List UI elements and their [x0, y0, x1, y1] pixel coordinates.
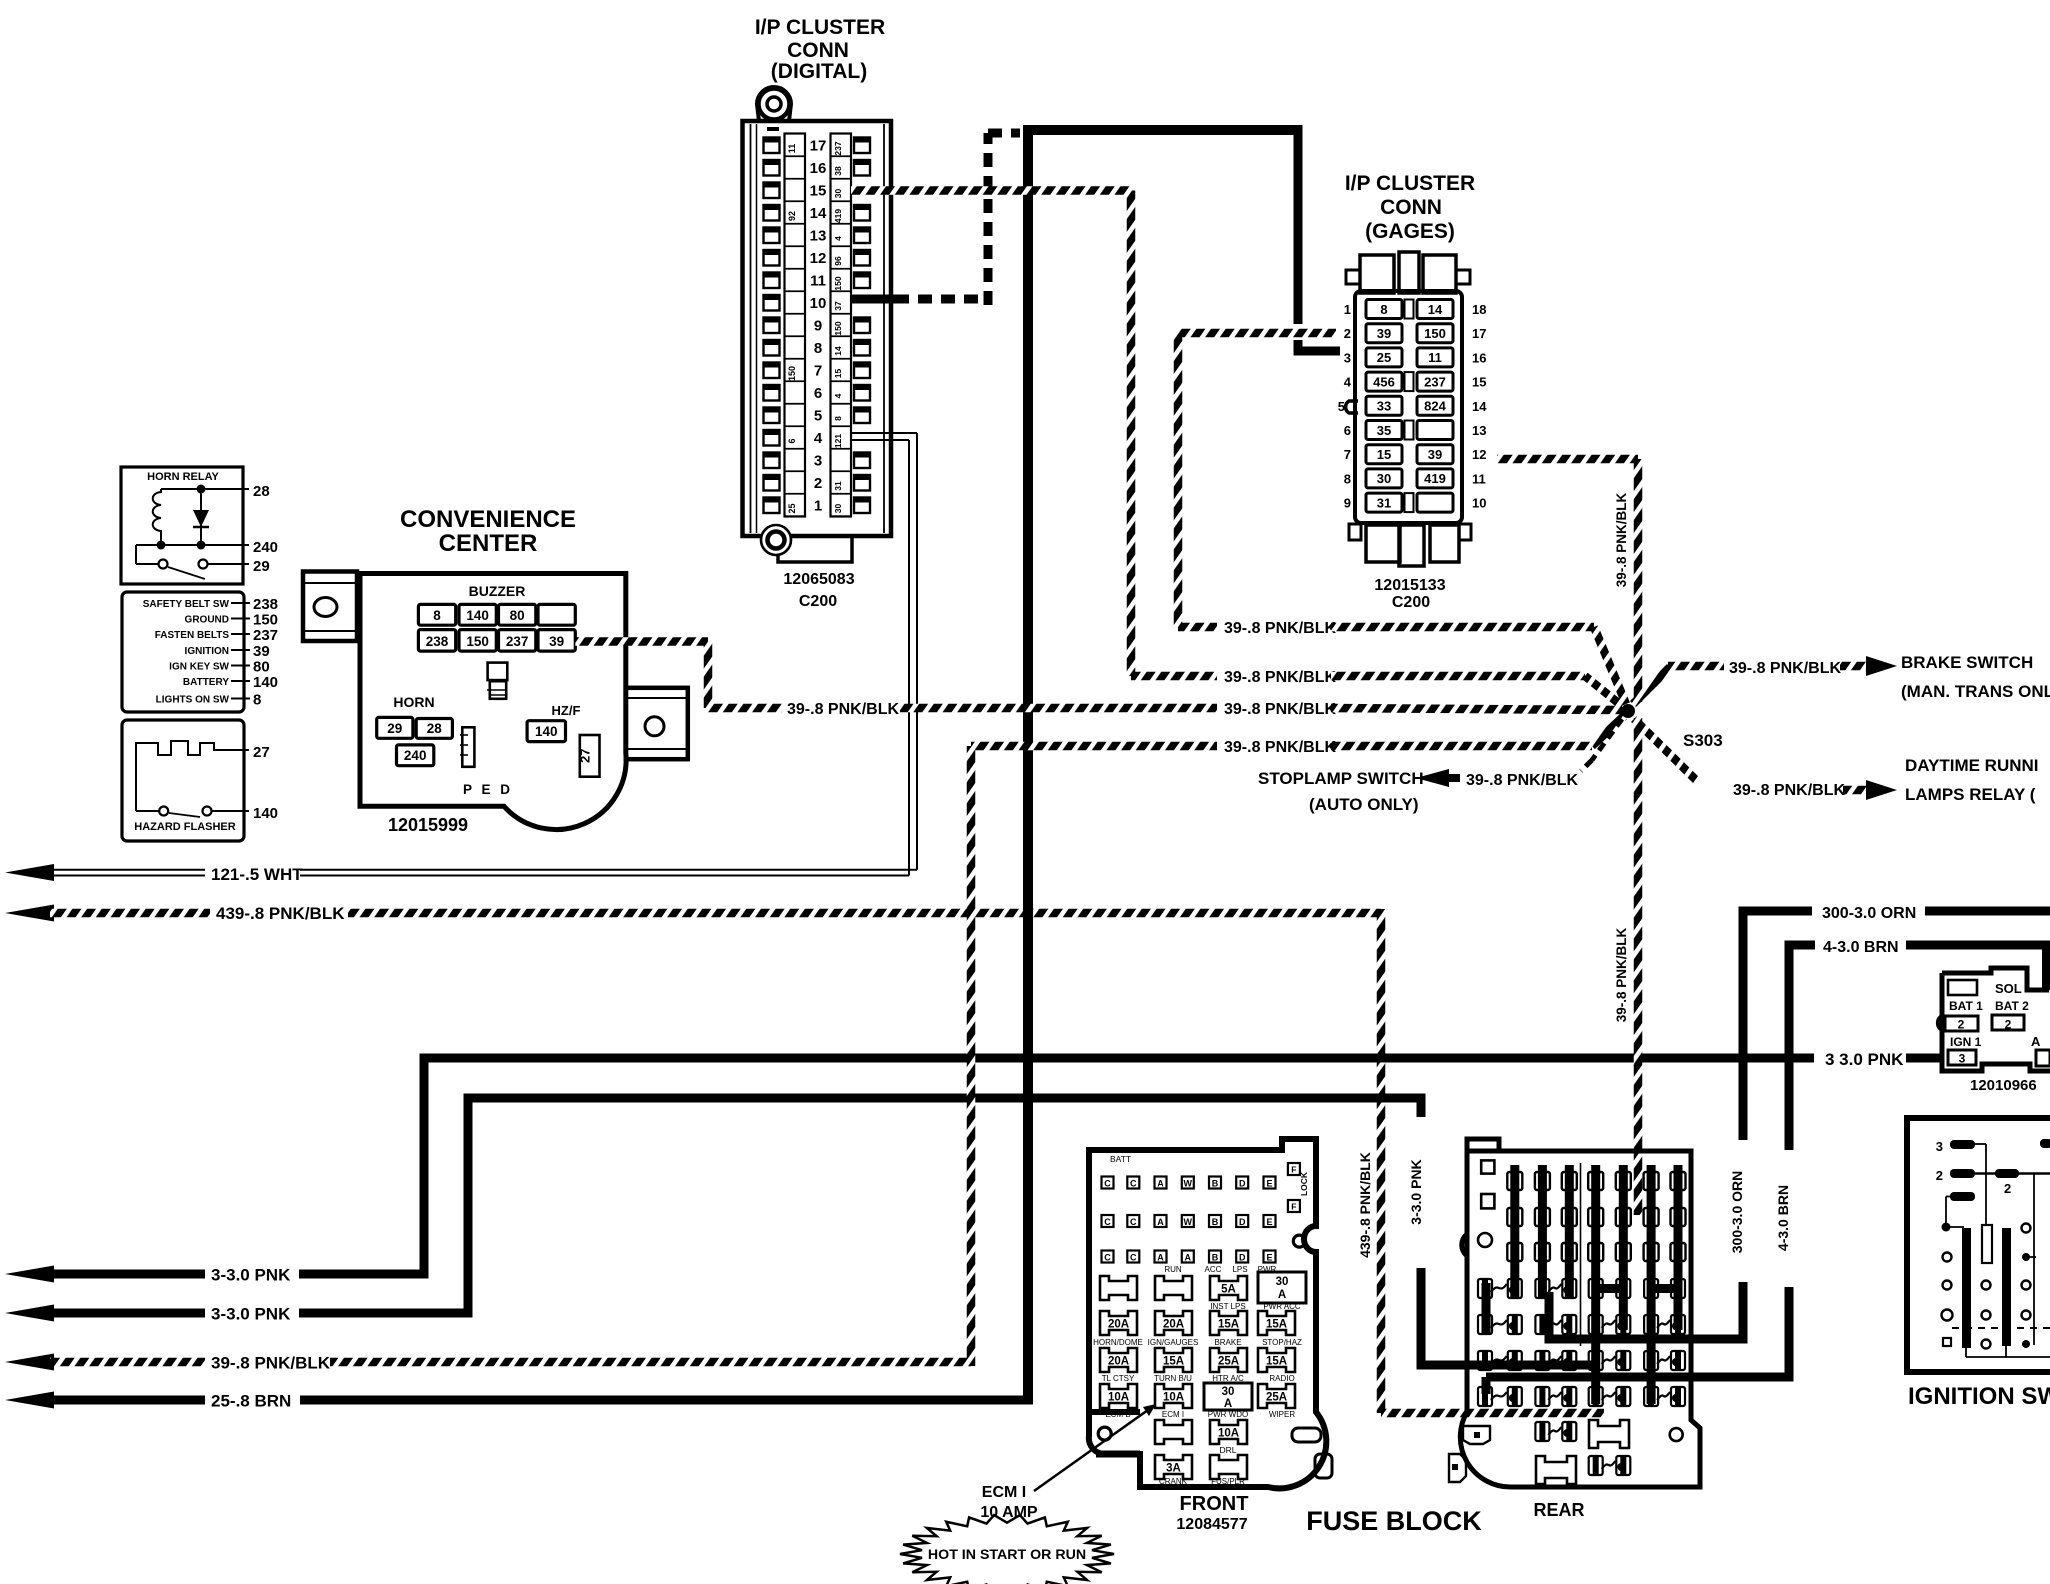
svg-text:237: 237	[506, 634, 529, 649]
svg-text:SAFETY BELT SW: SAFETY BELT SW	[143, 599, 230, 610]
wire 121-.5 WHT to left harness	[5, 433, 917, 884]
svg-text:240: 240	[253, 539, 278, 556]
svg-text:BRAKE SWITCH: BRAKE SWITCH	[1901, 653, 2033, 672]
svg-text:IGNITION: IGNITION	[185, 646, 229, 657]
svg-text:419: 419	[1424, 471, 1446, 486]
convenience center middle connector	[487, 663, 507, 699]
svg-text:17: 17	[1472, 326, 1486, 341]
svg-text:RADIO: RADIO	[1269, 1374, 1294, 1383]
svg-text:12010966: 12010966	[1970, 1077, 2037, 1094]
svg-text:4: 4	[814, 430, 823, 447]
svg-text:824: 824	[1424, 399, 1446, 414]
connector U1 left contact squares pins 17-1	[764, 127, 780, 513]
svg-text:A: A	[1278, 1289, 1286, 1301]
svg-text:W: W	[1184, 1178, 1193, 1188]
front fuse block outline 12084577	[1089, 1139, 1326, 1488]
wire 25-.8 BRN top run to gages pin 3	[1023, 125, 1340, 351]
front fuse row 6: 3A CRANK / FUS-PLR	[1155, 1455, 1247, 1486]
svg-text:27: 27	[578, 749, 593, 763]
svg-text:11: 11	[1472, 471, 1486, 486]
svg-text:I/P CLUSTER: I/P CLUSTER	[755, 16, 885, 39]
relay K1 switch contacts and wire 29	[136, 545, 270, 579]
wire 39-.8 PNK/BLK splice row 4 (from left harness riser)	[971, 716, 1624, 756]
wire 39 PNK/BLK from gages pin 12	[1497, 459, 1638, 702]
svg-text:C: C	[1130, 1217, 1137, 1227]
svg-text:P E D: P E D	[463, 782, 513, 797]
svg-text:92: 92	[787, 211, 797, 221]
svg-text:8: 8	[253, 692, 261, 709]
svg-text:17: 17	[810, 138, 827, 155]
wire 39-.8 PNK/BLK S303 drop to rear fuse block	[1614, 718, 1638, 1215]
svg-text:A: A	[1185, 1252, 1192, 1262]
svg-text:TURN B/U: TURN B/U	[1154, 1374, 1192, 1383]
svg-text:FRONT: FRONT	[1180, 1493, 1249, 1515]
wire 25-.8 BRN to left harness	[5, 1392, 1028, 1411]
connector U1 right circuit-number column	[831, 134, 852, 517]
svg-text:39-.8 PNK/BLK: 39-.8 PNK/BLK	[1733, 782, 1845, 799]
svg-text:121-.5 WHT: 121-.5 WHT	[211, 865, 303, 884]
svg-text:CONVENIENCE: CONVENIENCE	[400, 506, 576, 533]
ignition switch pin 3	[1936, 1139, 1986, 1224]
svg-text:(GAGES): (GAGES)	[1365, 220, 1455, 243]
rear fuse block lower-left pad	[1449, 1454, 1466, 1482]
svg-text:BATT: BATT	[1110, 1154, 1131, 1164]
svg-text:8: 8	[833, 416, 843, 421]
svg-text:3-3.0 PNK: 3-3.0 PNK	[1408, 1159, 1424, 1224]
svg-text:15: 15	[833, 369, 843, 379]
svg-text:15A: 15A	[1266, 1356, 1287, 1368]
svg-text:12: 12	[1472, 447, 1486, 462]
svg-text:STOP/HAZ: STOP/HAZ	[1262, 1338, 1302, 1347]
svg-text:W: W	[1184, 1217, 1193, 1227]
svg-text:33: 33	[1377, 399, 1391, 414]
svg-text:39-.8 PNK/BLK: 39-.8 PNK/BLK	[787, 701, 899, 718]
svg-text:7: 7	[814, 363, 822, 380]
svg-text:2: 2	[2005, 1018, 2012, 1032]
wire 28 horn relay	[161, 483, 270, 500]
svg-text:13: 13	[810, 228, 827, 245]
convenience center right mounting tab	[626, 688, 688, 759]
svg-text:LPS: LPS	[1232, 1265, 1247, 1274]
connector U1 bottom screw and tab	[761, 525, 852, 562]
svg-text:96: 96	[833, 256, 843, 266]
svg-text:419: 419	[833, 209, 843, 223]
svg-text:11: 11	[787, 144, 797, 154]
svg-text:80: 80	[510, 608, 525, 623]
wire 25-.8 BRN long riser	[1023, 130, 1033, 1405]
svg-text:2: 2	[2004, 1181, 2011, 1196]
svg-text:30: 30	[1377, 471, 1391, 486]
svg-text:12015999: 12015999	[388, 815, 468, 835]
svg-text:150: 150	[466, 634, 489, 649]
svg-text:8: 8	[1380, 302, 1387, 317]
svg-text:238: 238	[253, 596, 278, 613]
svg-text:39-.8 PNK/BLK: 39-.8 PNK/BLK	[1614, 927, 1629, 1022]
svg-text:15A: 15A	[1266, 1319, 1287, 1331]
svg-text:6: 6	[814, 385, 822, 402]
wire 300-3.0 ORN feed	[1549, 905, 2050, 1344]
svg-text:BRAKE: BRAKE	[1214, 1338, 1241, 1347]
convenience center small connector	[460, 727, 474, 767]
front fuse block accessory pads	[1292, 1428, 1332, 1478]
wire 39-.8 PNK/BLK branch to stoplamp switch	[1258, 719, 1622, 814]
svg-text:15: 15	[1472, 375, 1486, 390]
wire 3-3.0 PNK (upper) to left harness	[5, 1050, 1941, 1285]
front fuse row 3: 20A 15A 25A 15A	[1100, 1348, 1295, 1372]
svg-text:C: C	[1130, 1252, 1137, 1262]
svg-text:140: 140	[253, 674, 278, 691]
rear fuse block clip rows 2-4	[1478, 1315, 1685, 1406]
svg-text:8: 8	[1344, 471, 1351, 486]
svg-text:150: 150	[1424, 326, 1446, 341]
svg-text:5: 5	[814, 408, 822, 425]
front fuse block F terminals	[1288, 1163, 1300, 1212]
svg-text:6: 6	[1344, 423, 1351, 438]
buzzer cavity row 1: 8 140 80 blank	[418, 604, 575, 625]
svg-text:E: E	[1266, 1178, 1272, 1188]
svg-text:B: B	[1212, 1178, 1219, 1188]
svg-text:25A: 25A	[1266, 1392, 1287, 1404]
svg-text:REAR: REAR	[1533, 1500, 1584, 1520]
flasher element and wire 27	[136, 741, 270, 770]
svg-text:B: B	[1212, 1217, 1219, 1227]
svg-text:I/P CLUSTER: I/P CLUSTER	[1345, 172, 1475, 195]
wire 39 PNK/BLK from digital pin 15	[851, 191, 1131, 677]
svg-text:D: D	[1239, 1178, 1246, 1188]
wire 39-.8 PNK/BLK branch to daytime running lamps relay	[1634, 719, 2039, 804]
svg-text:ACC: ACC	[1205, 1265, 1222, 1274]
svg-text:2: 2	[814, 475, 822, 492]
svg-text:S303: S303	[1683, 731, 1723, 750]
svg-text:HORN/DOME: HORN/DOME	[1093, 1338, 1143, 1347]
svg-text:GROUND: GROUND	[185, 615, 229, 626]
svg-text:30: 30	[1276, 1276, 1289, 1288]
svg-text:8: 8	[433, 608, 441, 623]
svg-text:(MAN. TRANS ONLY: (MAN. TRANS ONLY	[1901, 682, 2050, 701]
front fuse row 5: blank / 10A DRL	[1155, 1420, 1247, 1455]
svg-text:STOPLAMP SWITCH: STOPLAMP SWITCH	[1258, 769, 1424, 788]
svg-text:237: 237	[253, 627, 278, 644]
svg-text:IGNITION SW: IGNITION SW	[1908, 1383, 2050, 1410]
svg-text:31: 31	[1377, 495, 1391, 510]
front fuse block bus labels RUN ACC LPS PWR	[1164, 1265, 1276, 1274]
rear fuse block fusible link columns	[1507, 1165, 1685, 1404]
svg-text:3-3.0 PNK: 3-3.0 PNK	[211, 1305, 291, 1324]
svg-text:A: A	[1157, 1178, 1164, 1188]
svg-text:B: B	[1212, 1252, 1219, 1262]
svg-text:31: 31	[833, 481, 843, 491]
callout ECM I 10 AMP	[980, 1404, 1156, 1521]
svg-text:PWR ACC: PWR ACC	[1263, 1302, 1301, 1311]
svg-text:300-3.0 ORN: 300-3.0 ORN	[1729, 1171, 1745, 1253]
instrument switch feed box	[122, 592, 244, 712]
svg-text:39-.8 PNK/BLK: 39-.8 PNK/BLK	[1466, 772, 1578, 789]
relay K1 HORN RELAY box	[121, 467, 243, 584]
svg-text:150: 150	[833, 321, 843, 335]
connector U1 I/P CLUSTER CONN (DIGITAL) title	[755, 16, 885, 83]
svg-text:C: C	[1130, 1178, 1137, 1188]
svg-text:BATTERY: BATTERY	[183, 677, 229, 688]
svg-text:10A: 10A	[1163, 1392, 1184, 1404]
svg-text:C: C	[1104, 1217, 1111, 1227]
rear fuse block left riser	[1482, 1283, 1491, 1333]
svg-text:9: 9	[814, 318, 822, 335]
svg-text:39: 39	[1428, 447, 1442, 462]
convenience center 12015999 body outline	[357, 574, 626, 830]
HZ/F cavity 140	[527, 721, 565, 742]
svg-text:ECM B: ECM B	[1105, 1410, 1130, 1419]
svg-text:WIPER: WIPER	[1269, 1410, 1295, 1419]
svg-text:150: 150	[833, 276, 843, 290]
svg-text:150: 150	[253, 612, 278, 629]
svg-text:(AUTO ONLY): (AUTO ONLY)	[1309, 795, 1419, 814]
connector U1 pin numbers 1-17	[810, 138, 827, 515]
wire 439-.8 PNK/BLK vertical drop to fuse block	[1357, 909, 1604, 1413]
svg-text:A: A	[2031, 1034, 2041, 1049]
svg-text:IGN 1: IGN 1	[1950, 1035, 1982, 1049]
svg-text:C200: C200	[799, 593, 837, 610]
svg-text:3: 3	[814, 453, 822, 470]
connector U1 body C200 12065083	[743, 87, 892, 536]
svg-text:10A: 10A	[1108, 1392, 1129, 1404]
svg-text:140: 140	[535, 724, 558, 739]
svg-text:DAYTIME RUNNI: DAYTIME RUNNI	[1905, 756, 2039, 775]
svg-text:300-3.0 ORN: 300-3.0 ORN	[1822, 905, 1916, 922]
node GROUND wire 150	[185, 612, 278, 629]
svg-text:10: 10	[810, 295, 827, 312]
wire 39-.8 PNK/BLK riser to splice row	[967, 746, 976, 1366]
svg-text:HOT IN START OR RUN: HOT IN START OR RUN	[928, 1547, 1086, 1563]
node BATTERY wire 140	[183, 674, 278, 691]
svg-text:2: 2	[1958, 1018, 1965, 1032]
svg-text:14: 14	[1428, 302, 1443, 317]
rear fuse block clip row 1	[1478, 1279, 1685, 1298]
svg-text:30: 30	[1222, 1386, 1235, 1398]
svg-text:ECM I: ECM I	[982, 1484, 1026, 1501]
front fuse row2 sublabels	[1093, 1338, 1302, 1347]
svg-text:CONN: CONN	[1380, 196, 1442, 219]
front fuse block terminal letter grid	[1102, 1177, 1276, 1263]
svg-text:14: 14	[810, 205, 827, 222]
svg-text:28: 28	[253, 483, 270, 500]
svg-text:12015133: 12015133	[1374, 577, 1445, 594]
wire 439-.8 PNK/BLK to left harness	[5, 904, 1381, 923]
connector U2 terminal boxes and circuit numbers	[1366, 300, 1453, 513]
node IGN KEY SW wire 80	[169, 659, 270, 676]
svg-text:7: 7	[1344, 447, 1351, 462]
svg-text:12065083: 12065083	[783, 571, 854, 588]
svg-text:11: 11	[810, 273, 826, 290]
svg-text:INST LPS: INST LPS	[1210, 1302, 1245, 1311]
svg-text:3: 3	[1936, 1139, 1943, 1154]
svg-text:14: 14	[1472, 399, 1487, 414]
horn cavity 29	[377, 717, 413, 738]
svg-text:15A: 15A	[1163, 1356, 1184, 1368]
ignition switch third terminal	[1942, 1192, 1976, 1232]
svg-text:A: A	[1157, 1217, 1164, 1227]
svg-text:28: 28	[427, 721, 443, 736]
wire 39-.8 PNK/BLK splice row 3 (from convenience center buzzer 39)	[575, 642, 1622, 719]
connector SOL 12010966 body	[1938, 968, 2050, 1071]
front fuse row 2: 20A 20A 15A 15A	[1100, 1311, 1295, 1335]
svg-text:A: A	[1224, 1398, 1232, 1410]
svg-text:15: 15	[810, 183, 827, 200]
svg-text:16: 16	[1472, 350, 1486, 365]
svg-text:439-.8 PNK/BLK: 439-.8 PNK/BLK	[1357, 1152, 1373, 1258]
svg-text:237: 237	[833, 141, 843, 155]
svg-text:E: E	[1266, 1217, 1272, 1227]
svg-text:FUSE BLOCK: FUSE BLOCK	[1306, 1506, 1482, 1536]
ignition switch pin 2	[1936, 1139, 2050, 1196]
svg-text:140: 140	[466, 608, 489, 623]
svg-text:C200: C200	[1392, 594, 1430, 611]
cavity 27 vertical	[578, 735, 600, 777]
svg-text:20A: 20A	[1108, 1356, 1129, 1368]
svg-text:F: F	[1291, 1165, 1296, 1175]
svg-text:HORN RELAY: HORN RELAY	[147, 471, 219, 483]
connector U2 pin numbers 1-9 and 18-10	[1338, 302, 1487, 511]
svg-text:9: 9	[1344, 496, 1351, 511]
node SAFETY BELT SW wire 238	[143, 596, 278, 613]
svg-text:4: 4	[833, 393, 843, 398]
convenience center left mounting tab	[303, 572, 357, 642]
svg-text:A: A	[1157, 1252, 1164, 1262]
svg-text:15A: 15A	[1218, 1319, 1239, 1331]
svg-text:ECM I: ECM I	[1162, 1410, 1184, 1419]
svg-text:10A: 10A	[1218, 1428, 1239, 1440]
svg-text:1: 1	[814, 498, 822, 515]
svg-text:SOL: SOL	[1995, 981, 2022, 996]
svg-text:150: 150	[787, 366, 797, 381]
svg-text:12: 12	[810, 250, 827, 267]
node FASTEN BELTS wire 237	[155, 627, 278, 644]
wire 240 horn relay	[136, 539, 278, 556]
svg-text:DRL: DRL	[1219, 1445, 1236, 1455]
wire 39-.8 PNK/BLK splice row 2 (from digital pin 15)	[1131, 669, 1622, 706]
relay K1 diode CR1	[193, 489, 209, 545]
svg-text:29: 29	[253, 558, 270, 575]
flasher HAZARD FLASHER box	[122, 720, 244, 841]
ignition switch box	[1907, 1118, 2050, 1372]
svg-text:C: C	[1104, 1178, 1111, 1188]
svg-text:RUN: RUN	[1164, 1265, 1182, 1274]
svg-text:PWR WDO: PWR WDO	[1208, 1410, 1248, 1419]
svg-text:TL CTSY: TL CTSY	[1102, 1374, 1135, 1383]
wire 39-.8 PNK/BLK to left harness	[5, 1354, 971, 1373]
svg-text:16: 16	[810, 160, 827, 177]
svg-text:D: D	[1239, 1252, 1246, 1262]
svg-text:3 3.0 PNK: 3 3.0 PNK	[1825, 1050, 1904, 1069]
wire 3-3.0 PNK vertical to rear fuse block	[1408, 1094, 1596, 1366]
flasher switch contacts and wire 140	[136, 770, 278, 822]
connector U1 right contact squares	[854, 138, 870, 514]
wire 39 PNK/BLK from gages pin 2	[1178, 333, 1336, 627]
connector U2 I/P CLUSTER CONN (GAGES) title	[1345, 172, 1475, 243]
svg-text:HORN: HORN	[393, 694, 434, 710]
svg-text:D: D	[1239, 1217, 1246, 1227]
connector U2 body C200 12015133	[1346, 252, 1471, 566]
svg-text:IGN KEY SW: IGN KEY SW	[169, 662, 229, 673]
svg-text:C: C	[1104, 1252, 1111, 1262]
svg-text:15: 15	[1377, 447, 1391, 462]
svg-text:FASTEN BELTS: FASTEN BELTS	[155, 630, 230, 641]
wire heavy dashed from digital pin 10	[851, 133, 1020, 305]
horn cavity 28	[416, 719, 452, 739]
svg-text:240: 240	[404, 748, 427, 763]
svg-text:LAMPS RELAY (: LAMPS RELAY (	[1905, 785, 2036, 804]
svg-text:11: 11	[1428, 350, 1442, 365]
svg-text:35: 35	[1377, 423, 1391, 438]
svg-text:37: 37	[833, 301, 843, 311]
svg-text:39: 39	[253, 643, 270, 660]
svg-text:456: 456	[1373, 374, 1395, 389]
svg-text:BUZZER: BUZZER	[469, 583, 526, 599]
rear fuse block lower cavity row 1	[1535, 1420, 1629, 1448]
buzzer cavity row 2: 238 150 237 39	[418, 630, 575, 652]
connector U1 left circuit-number column	[785, 134, 806, 517]
svg-text:3: 3	[1344, 350, 1351, 365]
rear fuse block D-pad	[1463, 1426, 1490, 1444]
svg-text:6: 6	[787, 438, 797, 443]
svg-text:27: 27	[253, 744, 270, 761]
connector U2 pin 5 hook terminal	[1346, 401, 1358, 413]
svg-text:238: 238	[426, 634, 449, 649]
front fuse row3 sublabels	[1102, 1374, 1295, 1383]
svg-text:FUS/PLR: FUS/PLR	[1211, 1477, 1245, 1486]
svg-text:39-.8 PNK/BLK: 39-.8 PNK/BLK	[211, 1354, 331, 1373]
svg-text:25: 25	[787, 503, 797, 513]
svg-text:439-.8 PNK/BLK: 439-.8 PNK/BLK	[216, 904, 345, 923]
svg-text:12084577: 12084577	[1176, 1516, 1247, 1533]
front fuse row4 sublabels	[1105, 1410, 1295, 1419]
svg-text:F: F	[1291, 1202, 1296, 1212]
svg-text:39-.8 PNK/BLK: 39-.8 PNK/BLK	[1614, 492, 1629, 587]
svg-text:CONN: CONN	[787, 39, 849, 62]
svg-text:29: 29	[387, 721, 402, 736]
svg-text:IGN/GAUGES: IGN/GAUGES	[1148, 1338, 1199, 1347]
front fuse row 4: 10A 10A 30A 25A	[1100, 1383, 1295, 1410]
svg-text:4-3.0 BRN: 4-3.0 BRN	[1823, 939, 1899, 956]
svg-text:3A: 3A	[1166, 1463, 1181, 1475]
svg-text:HZ/F: HZ/F	[552, 703, 581, 718]
svg-text:E: E	[1266, 1252, 1272, 1262]
svg-text:HAZARD FLASHER: HAZARD FLASHER	[134, 821, 235, 833]
svg-text:237: 237	[1424, 374, 1446, 389]
front fuse row 1: blank blank 5A / 30A PWR ACC	[1100, 1272, 1306, 1303]
svg-text:30: 30	[833, 504, 843, 514]
svg-text:13: 13	[1472, 423, 1486, 438]
svg-text:4: 4	[1344, 375, 1352, 390]
svg-text:20A: 20A	[1163, 1319, 1184, 1331]
svg-text:39-.8 PNK/BLK: 39-.8 PNK/BLK	[1224, 620, 1336, 637]
svg-text:2: 2	[1344, 326, 1351, 341]
svg-text:39-.8 PNK/BLK: 39-.8 PNK/BLK	[1224, 701, 1336, 718]
svg-text:10 AMP: 10 AMP	[980, 1504, 1038, 1521]
svg-text:BAT 1: BAT 1	[1949, 999, 1983, 1013]
ignition switch travel dashed line	[1952, 1327, 2050, 1329]
ignition switch bottom link	[1966, 1346, 2050, 1357]
svg-text:39-.8 PNK/BLK: 39-.8 PNK/BLK	[1729, 660, 1841, 677]
svg-text:18: 18	[1472, 302, 1486, 317]
node IGNITION wire 39	[185, 643, 270, 660]
rear fuse block lower cavity row 2	[1536, 1456, 1630, 1484]
svg-text:8: 8	[814, 340, 822, 357]
svg-text:BAT 2: BAT 2	[1995, 999, 2029, 1013]
ignition switch contact circles	[1942, 1224, 2037, 1349]
svg-text:LIGHTS ON SW: LIGHTS ON SW	[156, 695, 230, 706]
wire 39-.8 PNK/BLK branch to brake switch	[1633, 653, 2050, 704]
svg-text:121: 121	[833, 434, 843, 448]
